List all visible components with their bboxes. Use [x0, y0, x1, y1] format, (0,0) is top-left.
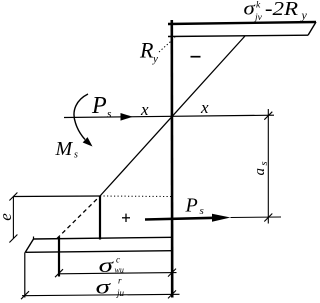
svg-text:y: y	[301, 8, 308, 22]
a_s dimension vertical line	[267, 109, 269, 224]
dotted leader from R_y to bar corner	[159, 38, 175, 53]
e dimension vertical line	[12, 197, 14, 239]
tick sigma_wu left	[55, 269, 63, 277]
svg-text:c: c	[116, 255, 120, 265]
svg-text:wu: wu	[115, 266, 124, 275]
svg-text:a: a	[252, 168, 268, 176]
svg-text:e: e	[0, 213, 15, 221]
svg-text:y: y	[152, 53, 158, 65]
bottom flange lower edge	[25, 251, 172, 253]
left outer edge vertical	[24, 252, 26, 297]
svg-text:P: P	[91, 93, 107, 119]
svg-text:σ: σ	[96, 277, 112, 299]
minus sign in compression zone	[191, 56, 201, 58]
thin extension line after lower arrow	[231, 216, 282, 219]
tick at a_s top	[264, 112, 272, 120]
svg-text:σ: σ	[99, 255, 115, 277]
label sigma_ju^k = 2R_y top right	[243, 0, 307, 23]
tick at e top	[9, 193, 17, 201]
svg-text:s: s	[259, 161, 270, 165]
stress ordinate vertical at x=59	[58, 237, 60, 277]
plus sign in tension zone	[122, 214, 130, 222]
svg-text:r: r	[118, 276, 122, 286]
sigma_wu^c dimension line	[58, 273, 177, 274]
svg-text:σ: σ	[243, 0, 255, 19]
label R_y	[139, 38, 158, 66]
lower force P_s thick arrow	[145, 214, 231, 222]
label a_s rotated	[252, 161, 270, 175]
tick sigma_ju left	[21, 291, 29, 299]
vertical stress ordinate line at junction	[99, 196, 101, 240]
moment M_s curved arrow	[74, 94, 93, 147]
svg-text:x: x	[200, 98, 209, 117]
sigma_ju^r dimension line	[22, 294, 180, 295]
svg-text:P: P	[185, 195, 198, 217]
x axis horizontal line	[64, 115, 274, 117]
label P_s lower	[185, 195, 204, 218]
label sigma_wu^c	[99, 255, 124, 277]
tick sigma_ju right	[168, 290, 176, 298]
svg-text:s: s	[200, 205, 204, 217]
neutral axis vertical line	[171, 20, 174, 298]
tick at a_s bottom	[264, 214, 272, 222]
svg-text:R: R	[139, 38, 154, 63]
label M_s	[55, 138, 79, 161]
label P_s upper	[91, 93, 112, 121]
svg-text:s: s	[107, 109, 112, 121]
label sigma_ju^r	[96, 276, 125, 299]
svg-text:jv: jv	[253, 13, 263, 23]
upper force P_s arrowhead	[121, 113, 133, 121]
svg-text:ju: ju	[116, 288, 125, 298]
bottom flange top edge	[34, 237, 173, 240]
dotted line from junction to axis	[100, 195, 172, 198]
stress diagonal solid part	[100, 36, 245, 196]
top stress bar (parallelogram)	[168, 22, 316, 37]
svg-text:-2R: -2R	[265, 0, 298, 20]
tick at e bottom	[9, 235, 17, 243]
svg-text:x: x	[140, 100, 149, 119]
e dimension extension line y=196	[13, 195, 100, 198]
bevel corner of flange	[25, 239, 33, 252]
svg-text:M: M	[55, 138, 74, 160]
stress diagonal dashed part	[57, 196, 100, 239]
tick sigma_wu right	[168, 269, 176, 277]
svg-text:s: s	[74, 150, 78, 161]
